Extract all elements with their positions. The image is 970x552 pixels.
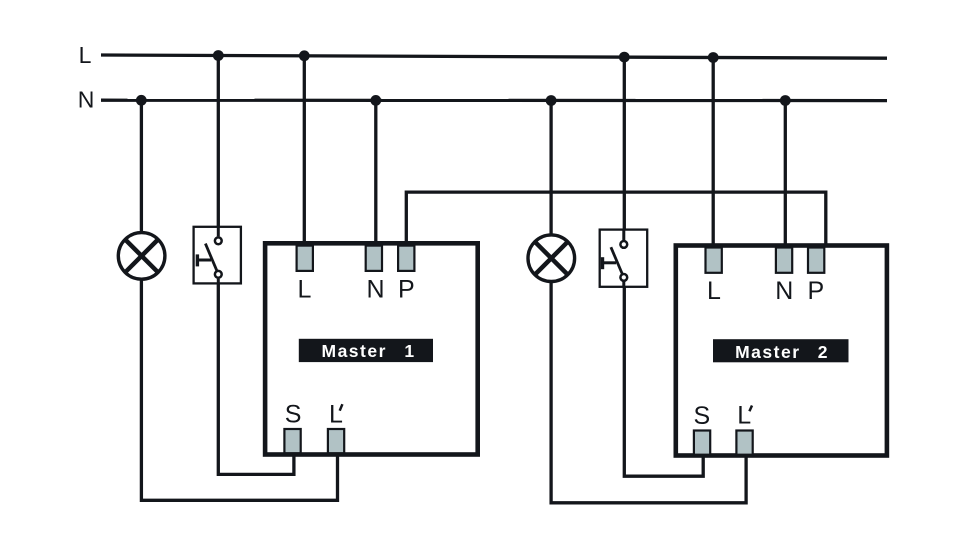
svg-text:Master: Master — [735, 342, 800, 362]
svg-text:L: L — [297, 275, 311, 303]
svg-text:Master: Master — [322, 341, 387, 361]
svg-text:2: 2 — [818, 342, 829, 362]
svg-text:L: L — [79, 42, 92, 68]
svg-text:P: P — [398, 275, 415, 303]
svg-text:N: N — [366, 275, 384, 303]
svg-text:N: N — [78, 87, 95, 113]
svg-text:1: 1 — [404, 341, 415, 361]
svg-text:L: L — [737, 401, 751, 429]
svg-text:N: N — [775, 277, 793, 305]
svg-text:P: P — [807, 277, 824, 305]
svg-text:S: S — [285, 401, 302, 429]
svg-text:L: L — [707, 277, 721, 305]
svg-text:S: S — [694, 402, 711, 430]
